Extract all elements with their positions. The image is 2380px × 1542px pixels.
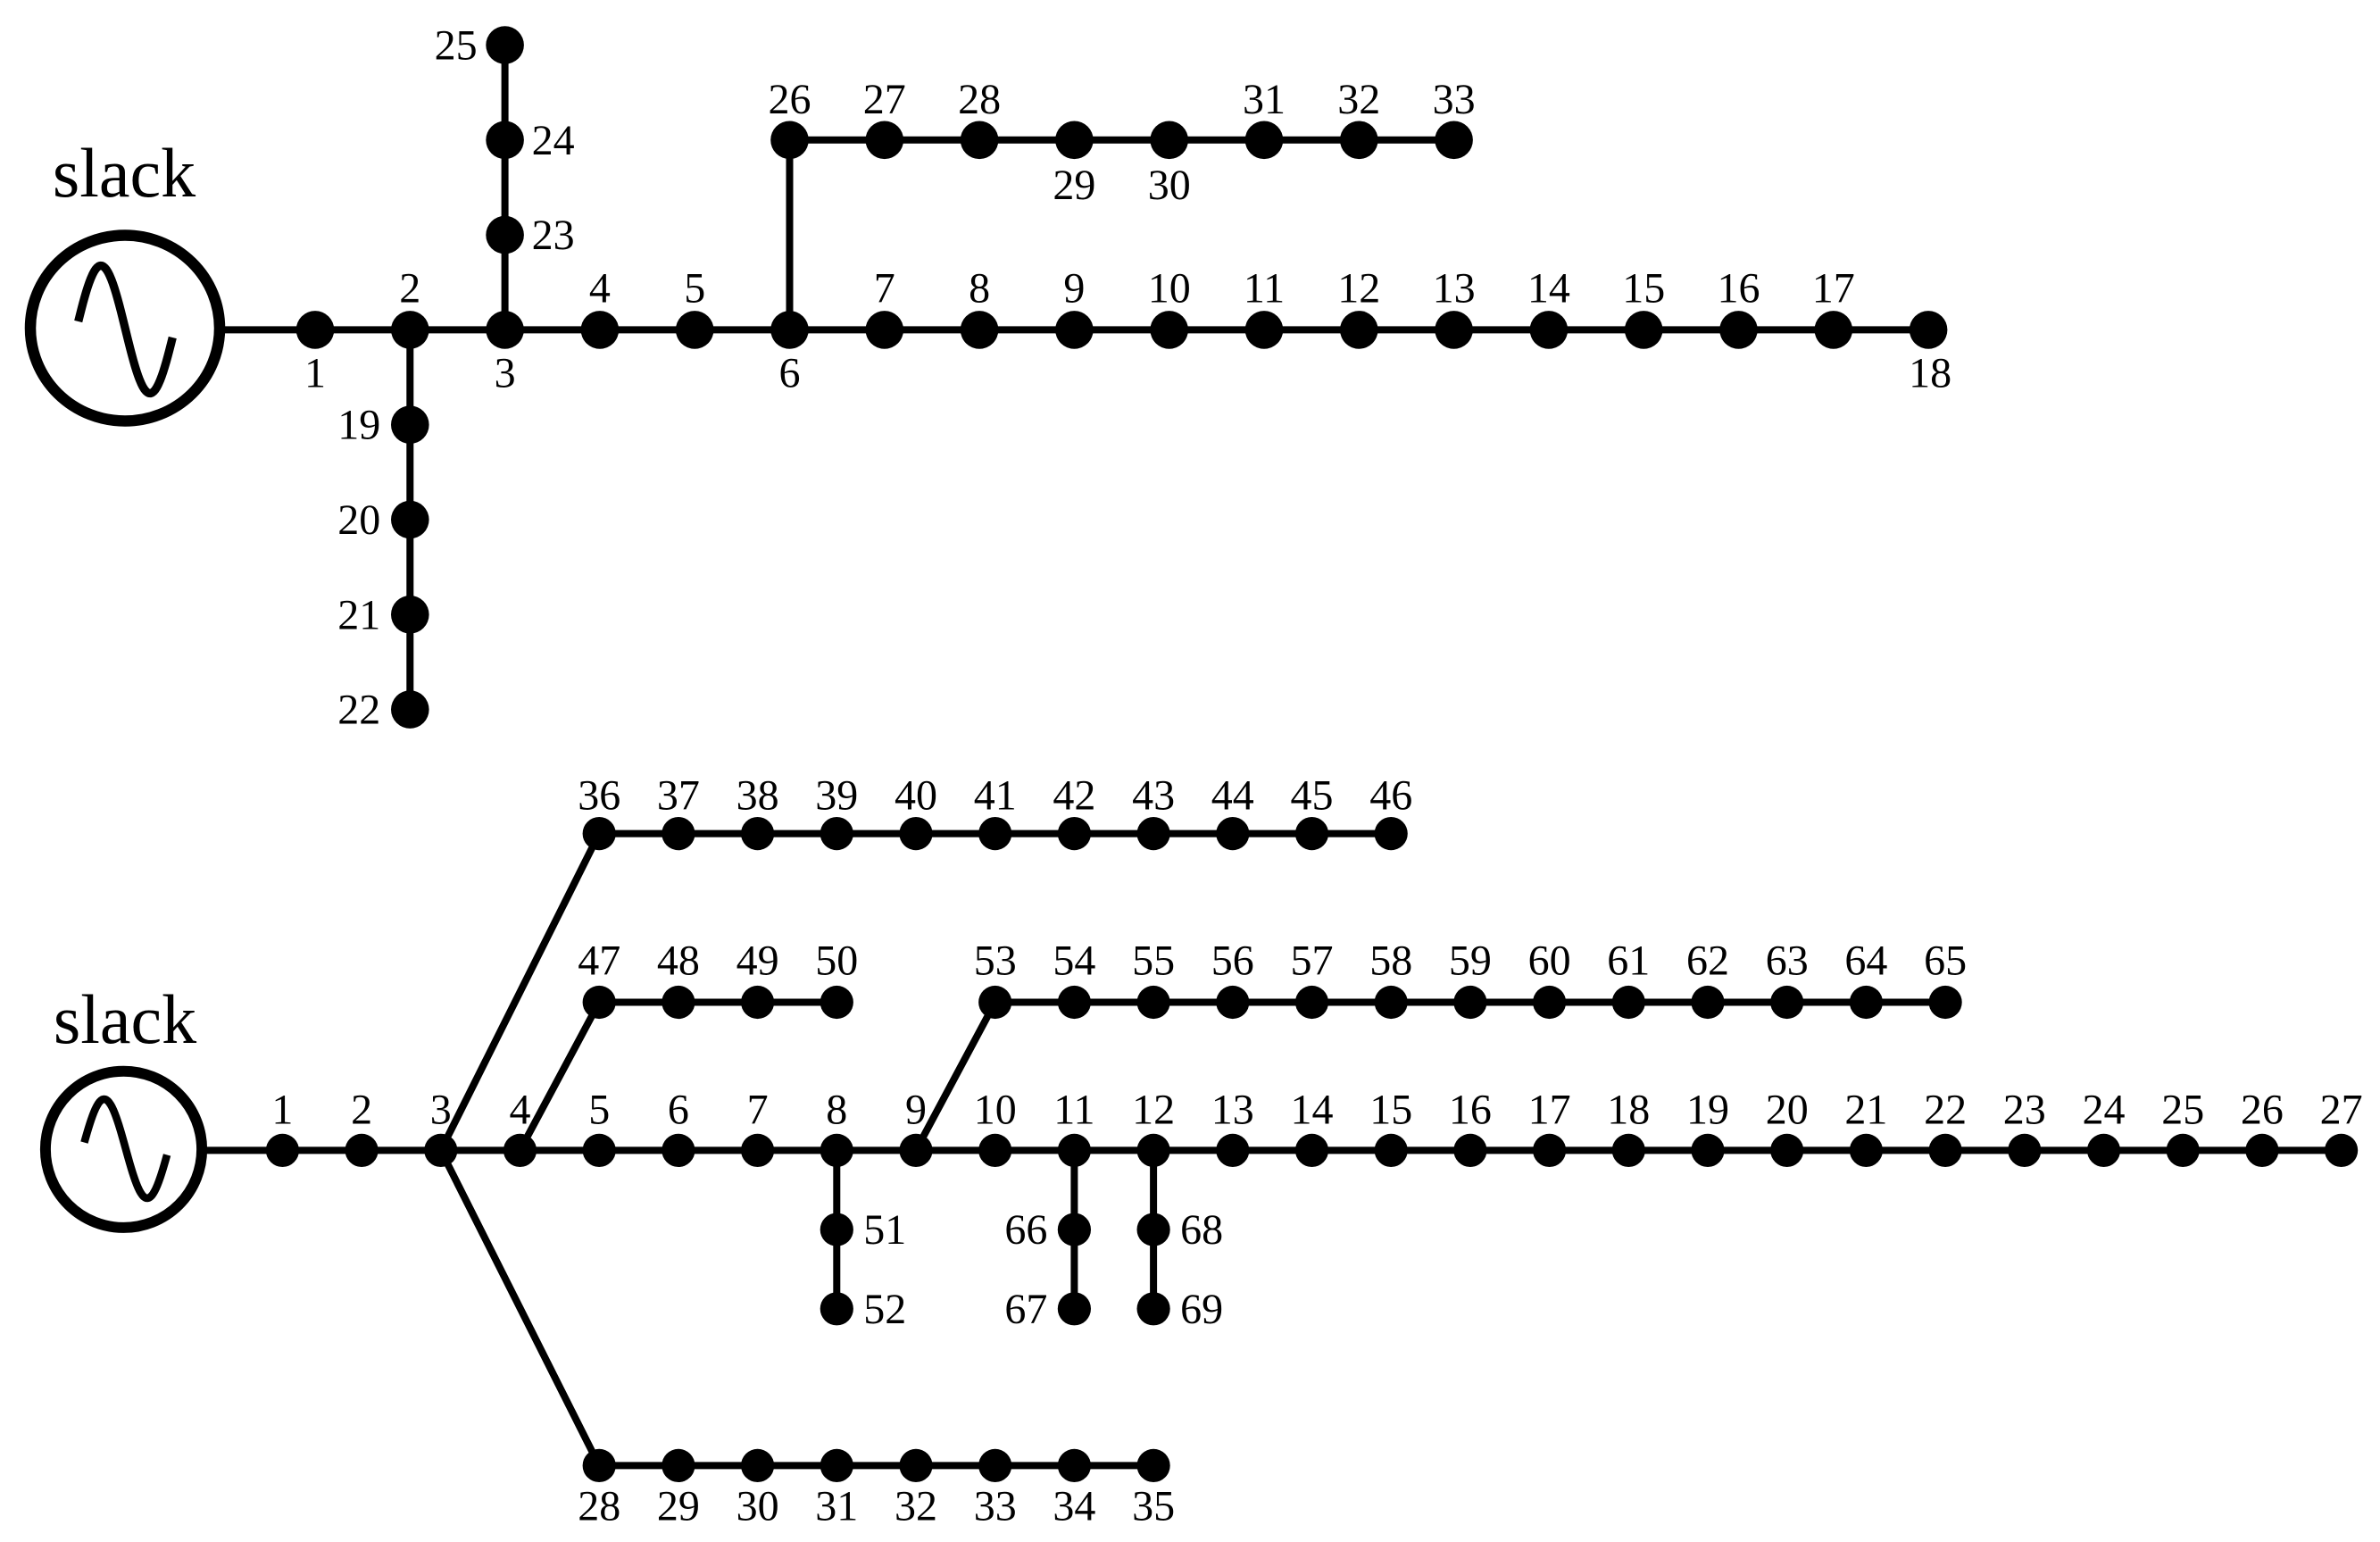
bus 64 (bottom network node) (1844, 938, 1887, 1020)
bus 20 (top network node) (337, 496, 429, 544)
bus 8 (top network node) (961, 264, 999, 348)
svg-text:25: 25 (2161, 1086, 2204, 1133)
bus 6 (top network node) (770, 311, 809, 396)
bus 3 (bottom network node) (424, 1086, 457, 1167)
svg-text:17: 17 (1812, 264, 1855, 312)
bus 5 (top network node) (676, 264, 714, 348)
bus 44 (bottom network node) (1211, 772, 1254, 851)
svg-text:13: 13 (1433, 264, 1476, 312)
bus 49 (bottom network node) (736, 938, 779, 1020)
svg-text:62: 62 (1686, 938, 1729, 985)
bus 53 (bottom network node) (974, 938, 1017, 1020)
svg-text:46: 46 (1369, 772, 1412, 820)
svg-text:22: 22 (337, 687, 380, 734)
bus 59 (bottom network node) (1449, 938, 1492, 1020)
svg-text:1: 1 (271, 1086, 293, 1133)
svg-text:61: 61 (1607, 938, 1650, 985)
svg-text:26: 26 (769, 76, 811, 123)
bus 23 (top network node) (486, 212, 574, 259)
bus 11 (bottom network node) (1053, 1086, 1094, 1167)
svg-text:20: 20 (337, 496, 380, 544)
bus 41 (bottom network node) (974, 772, 1017, 851)
svg-text:66: 66 (1004, 1206, 1047, 1254)
bus 28 (top network node) (958, 76, 1001, 159)
svg-text:19: 19 (1686, 1086, 1729, 1133)
svg-text:11: 11 (1244, 264, 1285, 312)
svg-text:51: 51 (863, 1206, 906, 1254)
bus 26 (bottom network node) (2241, 1086, 2284, 1167)
wire: branch bus 8 down to bus 52 (833, 1150, 840, 1308)
bus 9 (bottom network node) (899, 1086, 932, 1167)
svg-text:37: 37 (657, 772, 700, 820)
bus 66 (bottom network node) (1004, 1206, 1091, 1254)
svg-text:65: 65 (1924, 938, 1967, 985)
bus 30 (bottom network node) (736, 1449, 779, 1530)
bus 34 (bottom network node) (1053, 1449, 1095, 1530)
bus 8 (bottom network node) (820, 1086, 853, 1167)
svg-text:20: 20 (1766, 1086, 1809, 1133)
svg-text:12: 12 (1132, 1086, 1175, 1133)
svg-text:19: 19 (337, 402, 380, 449)
svg-text:16: 16 (1718, 264, 1760, 312)
bus 27 (top network node) (863, 76, 906, 159)
bus 10 (top network node) (1148, 264, 1191, 348)
bus 18 (top network node) (1909, 311, 1951, 396)
bus 57 (bottom network node) (1291, 938, 1334, 1020)
svg-text:68: 68 (1180, 1206, 1223, 1254)
svg-text:38: 38 (736, 772, 779, 820)
svg-text:7: 7 (874, 264, 895, 312)
bus 12 (bottom network node) (1132, 1086, 1175, 1167)
svg-text:11: 11 (1053, 1086, 1094, 1133)
wire: bottom slack to bus 1 (203, 1146, 283, 1154)
bus 3 (top network node) (486, 311, 524, 396)
bus 17 (bottom network node) (1528, 1086, 1571, 1167)
bus 29 (bottom network node) (657, 1449, 700, 1530)
svg-text:55: 55 (1132, 938, 1175, 985)
svg-text:34: 34 (1053, 1482, 1095, 1529)
bus 31 (top network node) (1243, 76, 1286, 159)
bus 54 (bottom network node) (1053, 938, 1095, 1020)
svg-text:48: 48 (657, 938, 700, 985)
wire: bottom main feeder buses 1-27 (282, 1146, 2341, 1154)
bus 15 (top network node) (1622, 264, 1665, 348)
bus 26 (top network node) (769, 76, 811, 159)
svg-text:59: 59 (1449, 938, 1492, 985)
svg-text:23: 23 (532, 212, 575, 259)
bus 52 (bottom network node) (820, 1286, 907, 1333)
bus 33 (top network node) (1433, 76, 1476, 159)
svg-text:9: 9 (1063, 264, 1085, 312)
svg-text:4: 4 (510, 1086, 531, 1133)
bus 22 (top network node) (337, 687, 429, 734)
bus 4 (top network node) (581, 264, 620, 348)
svg-text:23: 23 (2003, 1086, 2046, 1133)
bus 23 (bottom network node) (2003, 1086, 2046, 1167)
wire: lateral buses 53-65 (995, 999, 1945, 1006)
bus 67 (bottom network node) (1004, 1286, 1091, 1333)
svg-text:27: 27 (863, 76, 906, 123)
svg-text:43: 43 (1132, 772, 1175, 820)
bus 29 (top network node) (1053, 121, 1095, 209)
wire: lateral buses 47-50 (599, 999, 836, 1006)
svg-text:47: 47 (578, 938, 620, 985)
bus 5 (bottom network node) (583, 1086, 616, 1167)
svg-text:24: 24 (2083, 1086, 2126, 1133)
slack source (top 33-bus network): circle with sine (30, 236, 220, 421)
svg-text:69: 69 (1180, 1286, 1223, 1333)
svg-text:36: 36 (578, 772, 620, 820)
bus 68 (bottom network node) (1137, 1206, 1224, 1254)
svg-text:33: 33 (1433, 76, 1476, 123)
bus 30 (top network node) (1148, 121, 1191, 209)
svg-text:15: 15 (1369, 1086, 1412, 1133)
svg-text:8: 8 (826, 1086, 847, 1133)
bus 32 (top network node) (1337, 76, 1380, 159)
svg-text:16: 16 (1449, 1086, 1492, 1133)
svg-text:30: 30 (736, 1482, 779, 1529)
svg-text:32: 32 (1337, 76, 1380, 123)
bus 14 (bottom network node) (1291, 1086, 1334, 1167)
bus 33 (bottom network node) (974, 1449, 1017, 1530)
bus 24 (bottom network node) (2083, 1086, 2126, 1167)
svg-text:60: 60 (1528, 938, 1571, 985)
bus 63 (bottom network node) (1766, 938, 1809, 1020)
bus 14 (top network node) (1527, 264, 1570, 348)
bus 62 (bottom network node) (1686, 938, 1729, 1020)
bus 45 (bottom network node) (1291, 772, 1334, 851)
bus 6 (bottom network node) (662, 1086, 695, 1167)
svg-text:33: 33 (974, 1482, 1017, 1529)
wire: lateral buses 36-46 (599, 830, 1391, 838)
svg-text:22: 22 (1924, 1086, 1967, 1133)
bus 11 (top network node) (1244, 264, 1285, 348)
svg-text:67: 67 (1004, 1286, 1047, 1333)
bus 15 (bottom network node) (1369, 1086, 1412, 1167)
bus 27 (bottom network node) (2320, 1086, 2363, 1167)
svg-text:25: 25 (435, 22, 478, 70)
bus 9 (top network node) (1055, 264, 1094, 348)
svg-text:28: 28 (578, 1482, 620, 1529)
svg-text:29: 29 (1053, 162, 1095, 209)
svg-text:50: 50 (815, 938, 858, 985)
bus 31 (bottom network node) (815, 1449, 858, 1530)
wire: diagonal branch bus 3 to bus 28 (441, 1150, 599, 1465)
bus 16 (bottom network node) (1449, 1086, 1492, 1167)
svg-text:41: 41 (974, 772, 1017, 820)
svg-text:45: 45 (1291, 772, 1334, 820)
slack source (bottom 69-bus network): circle with sine (46, 1071, 202, 1228)
svg-text:58: 58 (1369, 938, 1412, 985)
wire: top lateral buses 26-33 (790, 137, 1454, 144)
svg-text:26: 26 (2241, 1086, 2284, 1133)
bus 48 (bottom network node) (657, 938, 700, 1020)
svg-text:1: 1 (304, 349, 326, 396)
svg-text:9: 9 (905, 1086, 927, 1133)
bus 42 (bottom network node) (1053, 772, 1095, 851)
svg-text:2: 2 (399, 264, 420, 312)
svg-text:21: 21 (1844, 1086, 1887, 1133)
bus 20 (bottom network node) (1766, 1086, 1809, 1167)
bus 61 (bottom network node) (1607, 938, 1650, 1020)
bus 40 (bottom network node) (895, 772, 937, 851)
bus 22 (bottom network node) (1924, 1086, 1967, 1167)
bus 32 (bottom network node) (895, 1449, 937, 1530)
svg-text:10: 10 (1148, 264, 1191, 312)
svg-text:slack: slack (53, 134, 196, 212)
wire: diagonal branch bus 3 to bus 36 (441, 834, 599, 1151)
bus 19 (bottom network node) (1686, 1086, 1729, 1167)
svg-text:5: 5 (588, 1086, 610, 1133)
wire: top branch bus 2 down to bus 22 (406, 329, 413, 709)
svg-text:slack: slack (54, 980, 196, 1058)
svg-text:14: 14 (1527, 264, 1570, 312)
bus 1 (bottom network node) (266, 1086, 299, 1167)
bus 13 (top network node) (1433, 264, 1476, 348)
wire: lateral buses 28-35 (599, 1462, 1153, 1469)
wire: top slack to bus 1 (220, 326, 315, 333)
svg-text:3: 3 (495, 349, 516, 396)
bus 37 (bottom network node) (657, 772, 700, 851)
svg-text:27: 27 (2320, 1086, 2363, 1133)
bus 55 (bottom network node) (1132, 938, 1175, 1020)
svg-text:17: 17 (1528, 1086, 1571, 1133)
svg-text:24: 24 (532, 117, 575, 164)
svg-text:18: 18 (1607, 1086, 1650, 1133)
svg-text:42: 42 (1053, 772, 1095, 820)
bus 46 (bottom network node) (1369, 772, 1412, 851)
bus 4 (bottom network node) (503, 1086, 537, 1167)
bus 17 (top network node) (1812, 264, 1855, 348)
svg-text:14: 14 (1291, 1086, 1334, 1133)
wire: branch bus 12 down to bus 69 (1150, 1150, 1157, 1308)
svg-text:3: 3 (430, 1086, 452, 1133)
svg-text:40: 40 (895, 772, 937, 820)
bus 16 (top network node) (1718, 264, 1760, 348)
bus 35 (bottom network node) (1132, 1449, 1175, 1530)
svg-text:10: 10 (974, 1086, 1017, 1133)
svg-text:21: 21 (337, 591, 380, 638)
svg-text:29: 29 (657, 1482, 700, 1529)
svg-text:63: 63 (1766, 938, 1809, 985)
wire: branch bus 11 down to bus 67 (1070, 1150, 1078, 1308)
svg-text:53: 53 (974, 938, 1017, 985)
wire: top branch bus 3 up to bus 25 (502, 46, 509, 330)
svg-text:4: 4 (589, 264, 611, 312)
bus 12 (top network node) (1337, 264, 1380, 348)
svg-text:52: 52 (863, 1286, 906, 1333)
svg-text:31: 31 (1243, 76, 1286, 123)
bus 69 (bottom network node) (1137, 1286, 1224, 1333)
bus 19 (top network node) (337, 402, 429, 449)
bus 10 (bottom network node) (974, 1086, 1017, 1167)
svg-text:12: 12 (1337, 264, 1380, 312)
svg-text:18: 18 (1909, 349, 1951, 396)
svg-text:54: 54 (1053, 938, 1095, 985)
svg-text:30: 30 (1148, 162, 1191, 209)
bus 21 (bottom network node) (1844, 1086, 1887, 1167)
bus 2 (top network node) (391, 264, 429, 348)
bus 58 (bottom network node) (1369, 938, 1412, 1020)
svg-text:64: 64 (1844, 938, 1887, 985)
bus 7 (bottom network node) (741, 1086, 774, 1167)
svg-text:31: 31 (815, 1482, 858, 1529)
bus 43 (bottom network node) (1132, 772, 1175, 851)
bus 51 (bottom network node) (820, 1206, 907, 1254)
bus 18 (bottom network node) (1607, 1086, 1650, 1167)
svg-text:2: 2 (351, 1086, 372, 1133)
svg-text:13: 13 (1211, 1086, 1254, 1133)
bus 1 (top network node) (296, 311, 335, 396)
bus 28 (bottom network node) (578, 1449, 620, 1530)
wire: diagonal branch bus 4 to bus 47 (520, 1003, 600, 1151)
bus 56 (bottom network node) (1211, 938, 1254, 1020)
wire: top riser bus 6 up to bus 26 (786, 140, 794, 330)
bus 47 (bottom network node) (578, 938, 620, 1020)
bus 7 (top network node) (866, 264, 904, 348)
bus 25 (bottom network node) (2161, 1086, 2204, 1167)
bus 36 (bottom network node) (578, 772, 620, 851)
wire: diagonal branch bus 9 to bus 53 (916, 1003, 995, 1151)
svg-text:57: 57 (1291, 938, 1334, 985)
bus 2 (bottom network node) (345, 1086, 379, 1167)
svg-text:39: 39 (815, 772, 858, 820)
svg-text:6: 6 (779, 349, 801, 396)
svg-text:15: 15 (1622, 264, 1665, 312)
svg-text:8: 8 (969, 264, 990, 312)
bus 13 (bottom network node) (1211, 1086, 1254, 1167)
svg-text:49: 49 (736, 938, 779, 985)
svg-text:7: 7 (747, 1086, 769, 1133)
bus 21 (top network node) (337, 591, 429, 638)
bus 39 (bottom network node) (815, 772, 858, 851)
svg-text:5: 5 (684, 264, 705, 312)
bus 38 (bottom network node) (736, 772, 779, 851)
svg-text:35: 35 (1132, 1482, 1175, 1529)
svg-text:56: 56 (1211, 938, 1254, 985)
svg-text:44: 44 (1211, 772, 1254, 820)
svg-text:28: 28 (958, 76, 1001, 123)
bus 24 (top network node) (486, 117, 574, 164)
bus 50 (bottom network node) (815, 938, 858, 1020)
bus 25 (top network node) (435, 22, 524, 70)
bus 60 (bottom network node) (1528, 938, 1571, 1020)
svg-text:32: 32 (895, 1482, 937, 1529)
wire: top main feeder buses 1-18 (315, 326, 1928, 333)
svg-text:6: 6 (668, 1086, 689, 1133)
bus 65 (bottom network node) (1924, 938, 1967, 1020)
